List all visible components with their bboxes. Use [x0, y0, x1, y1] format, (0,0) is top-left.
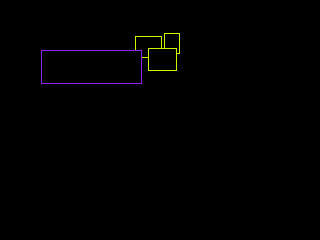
box W2 (yellow window, back upper-left; bottom edge hidden behind W1 and W4): [136, 37, 162, 51]
box W1 (purple window outline, front lower-left): [42, 51, 142, 84]
box W4 (yellow window, front right): [149, 49, 177, 71]
box W3 (yellow window, back upper-right; lower-left part hidden behind W4): [165, 34, 180, 54]
wire (hidden yellow window edge fragment between W1 and W4): [142, 57, 148, 59]
